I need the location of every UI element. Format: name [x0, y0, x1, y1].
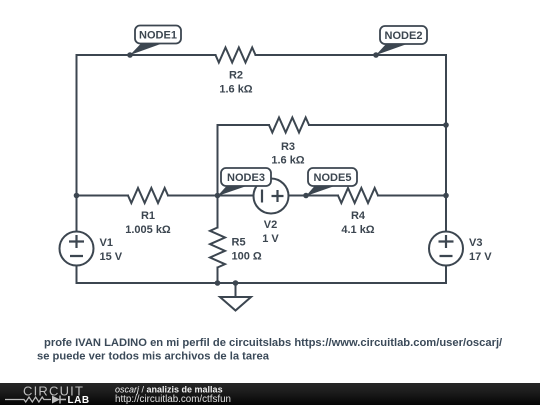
wire R4 to right rail segment [378, 195, 446, 197]
svg-text:V2: V2 [264, 219, 277, 231]
voltage source V3 [429, 232, 463, 266]
svg-text:R1: R1 [141, 210, 155, 222]
svg-text:1.6 kΩ: 1.6 kΩ [219, 84, 252, 96]
junction dot NODE1 [127, 52, 133, 58]
resistor R2 [216, 48, 256, 63]
svg-text:se puede ver todos mis archivo: se puede ver todos mis archivos de la ta… [37, 351, 270, 363]
wire V1 bottom stub [76, 266, 78, 284]
svg-text:15 V: 15 V [100, 251, 123, 263]
svg-text:R3: R3 [281, 141, 295, 153]
wire ground stem [235, 283, 237, 297]
label R1 value [125, 210, 171, 236]
voltage source V1 [60, 232, 94, 266]
wire left vertical (NODE1 branch down to V1) [76, 55, 78, 232]
svg-text:1.6 kΩ: 1.6 kΩ [271, 155, 304, 167]
resistor R3 [269, 118, 309, 133]
svg-text:oscarj / analizis de mallas: oscarj / analizis de mallas [115, 385, 223, 395]
label V3 value [469, 237, 492, 263]
svg-text:R4: R4 [351, 210, 366, 222]
wire R3 left segment [218, 124, 270, 126]
svg-text:4.1 kΩ: 4.1 kΩ [341, 224, 374, 236]
node label NODE2 [376, 26, 427, 55]
junction dot R4 / right rail [443, 193, 449, 199]
svg-text:LAB: LAB [68, 395, 90, 405]
ground [220, 297, 251, 311]
junction dot NODE3 [215, 193, 221, 199]
label V2 value [262, 219, 279, 245]
label R2 value [219, 70, 252, 96]
wire V2 to R4 segment [289, 195, 339, 197]
label R4 value [341, 210, 374, 236]
svg-text:R2: R2 [229, 70, 243, 82]
wire R1 to V2 segment [168, 195, 254, 197]
junction dot left rail / middle wire [74, 193, 80, 199]
svg-text:1.005 kΩ: 1.005 kΩ [125, 224, 171, 236]
svg-text:http://circuitlab.com/ctfsfun: http://circuitlab.com/ctfsfun [115, 394, 231, 405]
wire V3 bottom stub [445, 266, 447, 284]
label V1 value [100, 237, 123, 263]
wire R5 to bottom rail stub [217, 268, 219, 284]
wire R3 branch vertical [217, 125, 219, 196]
svg-text:17 V: 17 V [469, 251, 492, 263]
CircuitLab logo diode [52, 396, 66, 404]
CircuitLab logo resistor squiggle [5, 397, 51, 402]
wire NODE3 to R5 stub [217, 196, 219, 228]
svg-text:R5: R5 [232, 237, 246, 249]
junction dot NODE2 [373, 52, 379, 58]
svg-text:1 V: 1 V [262, 233, 279, 245]
wire right vertical (NODE2 down to V3) [445, 55, 447, 232]
node label NODE3 [218, 168, 272, 196]
svg-text:NODE3: NODE3 [227, 172, 265, 184]
svg-text:100 Ω: 100 Ω [232, 251, 262, 263]
wire middle left segment (left rail to R1) [77, 195, 129, 197]
svg-text:V3: V3 [469, 237, 482, 249]
resistor R4 [338, 188, 378, 203]
label R5 value [232, 237, 262, 263]
wire top right segment (R2 to NODE2 corner) [256, 54, 447, 56]
junction dot ground / bottom rail [233, 280, 239, 286]
voltage source V2 [254, 179, 289, 214]
resistor R1 [128, 188, 168, 203]
wire top left segment (NODE1 to R2) [77, 54, 216, 56]
resistor R5 [210, 228, 225, 268]
wire R3 right segment [309, 124, 446, 126]
wire bottom rail [77, 282, 447, 284]
junction dot R3 / right rail [443, 122, 449, 128]
junction dot NODE5 [303, 193, 309, 199]
svg-text:NODE5: NODE5 [314, 172, 352, 184]
label R3 value [271, 141, 304, 167]
node label NODE1 [130, 26, 181, 56]
svg-text:NODE2: NODE2 [385, 30, 423, 42]
node label NODE5 [306, 168, 357, 196]
svg-text:profe IVAN LADINO en mi perfil: profe IVAN LADINO en mi perfil de circui… [44, 337, 502, 349]
svg-text:NODE1: NODE1 [139, 30, 177, 42]
junction dot R5 / bottom rail [215, 280, 221, 286]
svg-text:V1: V1 [100, 237, 113, 249]
